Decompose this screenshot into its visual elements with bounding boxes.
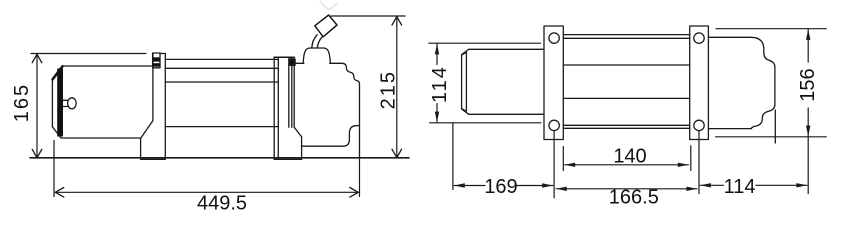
left support bar xyxy=(141,54,166,160)
hole centerline xyxy=(553,131,555,198)
knob stem xyxy=(63,100,68,106)
dim 169 extension line xyxy=(452,123,454,190)
motor top edge xyxy=(63,65,153,67)
svg-text:215: 215 xyxy=(377,70,399,109)
dim 140 line xyxy=(565,164,689,166)
tie rod bottom pair xyxy=(563,125,689,128)
clutch lever stem xyxy=(312,35,323,48)
svg-text:165: 165 xyxy=(11,83,33,122)
dim 156 arrows xyxy=(806,29,810,40)
svg-text:169: 169 xyxy=(484,176,517,198)
hole centerline xyxy=(698,131,700,194)
motor M1 outline xyxy=(52,66,152,138)
watermark check xyxy=(321,2,337,10)
svg-text:449.5: 449.5 xyxy=(197,193,247,215)
dim 166.5 arrows xyxy=(556,187,567,191)
dim 166.5 line xyxy=(556,188,697,190)
dim 449.5 extension lines xyxy=(54,141,360,197)
drum line upper xyxy=(563,64,689,66)
control box B1 (side view) xyxy=(294,63,359,159)
bolt hole xyxy=(549,120,559,130)
dim 114R arrows xyxy=(700,183,711,187)
dim 140 extension lines xyxy=(563,146,691,171)
drum line 1 xyxy=(165,58,278,60)
dim 114R line xyxy=(700,184,807,186)
drum line 3 xyxy=(165,81,278,83)
knob circle xyxy=(68,98,77,109)
control box B2 (end view) xyxy=(708,37,775,143)
bolt hole xyxy=(694,120,704,130)
motor left thin edge xyxy=(51,79,53,127)
right support foot bottom xyxy=(274,158,301,160)
clutch lever base xyxy=(303,48,330,63)
drum bottom line xyxy=(165,126,278,128)
dim 215 arrows xyxy=(392,17,402,158)
dim 114L line xyxy=(436,44,438,122)
motor M2 (top view) xyxy=(462,49,544,114)
clutch knob Q xyxy=(315,15,337,37)
dim 215 line xyxy=(396,17,398,158)
right plate P2 xyxy=(690,26,709,194)
motor bottom chamfer xyxy=(52,127,61,138)
baseline xyxy=(30,157,409,159)
left support foot bottom xyxy=(141,158,166,160)
left support tab xyxy=(153,53,160,68)
drum line lower xyxy=(563,97,689,99)
left plate P1 xyxy=(544,26,563,198)
dim 156 extension lines xyxy=(716,29,827,137)
dim 140 arrows xyxy=(565,163,576,167)
svg-text:140: 140 xyxy=(613,146,646,168)
dim 114L extension lines xyxy=(429,43,541,123)
svg-text:114: 114 xyxy=(429,65,451,103)
bolt hole xyxy=(694,33,704,43)
right support bar xyxy=(274,57,294,159)
bolt hole xyxy=(549,33,559,43)
svg-text:156: 156 xyxy=(797,68,819,101)
motor bottom edge xyxy=(61,137,141,139)
dim 449.5 line xyxy=(55,191,358,193)
dim 215 extension line xyxy=(331,15,405,17)
dim 165 arrows xyxy=(32,54,42,158)
tie rod top pair xyxy=(563,35,689,39)
motor top chamfer thick xyxy=(53,66,63,79)
right support tab xyxy=(290,59,295,65)
dim 114L arrows xyxy=(435,44,439,55)
dim 165 extension line xyxy=(31,53,146,55)
motor end cap black bar xyxy=(57,69,63,137)
dim 169 arrows xyxy=(454,183,465,187)
dim 156 line xyxy=(807,29,809,193)
dim 169 line xyxy=(454,185,553,187)
drum line 2 xyxy=(165,67,278,69)
dim 165 line xyxy=(36,54,38,158)
dim 449.5 arrows xyxy=(55,188,358,198)
svg-text:114: 114 xyxy=(724,176,756,198)
svg-text:166.5: 166.5 xyxy=(609,186,659,208)
